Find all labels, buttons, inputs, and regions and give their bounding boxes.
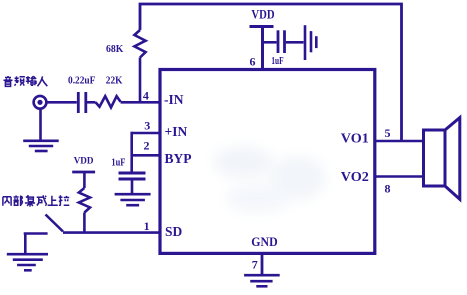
pin 3 wire stub (+IN): [132, 132, 160, 135]
wire: switch to pin 1 (SD): [63, 231, 160, 234]
svg-text:VDD: VDD: [74, 157, 94, 167]
svg-text:VO1: VO1: [341, 131, 369, 146]
svg-text:GND: GND: [251, 234, 277, 249]
wire: jack to C1: [47, 101, 77, 104]
wire: pin 8 to speaker: [375, 175, 423, 178]
capacitor C3 1uF (supply decoupling): [278, 30, 285, 53]
svg-text:-IN: -IN: [164, 92, 184, 107]
svg-text:2: 2: [144, 139, 150, 153]
pin 2 wire stub (BYP): [132, 154, 160, 157]
wire: VDD branch to C3: [263, 41, 277, 44]
ground (pin 7): [244, 275, 280, 286]
svg-text:6: 6: [250, 55, 256, 69]
svg-text:8: 8: [385, 182, 391, 196]
switch S1 (shutdown, open): [46, 215, 64, 232]
capacitor C1 0.22uF: [78, 92, 86, 113]
svg-text:4: 4: [143, 88, 149, 102]
wire: 68K bottom lead to -IN node: [139, 58, 142, 103]
speaker LS1: [424, 118, 460, 200]
svg-text:0.22uF: 0.22uF: [68, 76, 95, 87]
wire: C3 to ground: [286, 41, 304, 44]
ground (decoupling cap, rotated): [305, 25, 316, 60]
resistor (internal pull-up): [79, 188, 90, 213]
ground (input jack): [23, 110, 59, 152]
ground (switch): [7, 254, 48, 270]
svg-text:1uF: 1uF: [111, 157, 125, 168]
wire: VDD to pin 6: [261, 27, 264, 70]
resistor 22K (input): [96, 96, 121, 107]
svg-text:22K: 22K: [106, 76, 123, 87]
wire: pull-up resistor to SD wire: [83, 213, 86, 233]
op-amp U1 (power amplifier IC body): [160, 70, 375, 254]
svg-text:68K: 68K: [106, 44, 124, 55]
wire: top feedback rail from 68K to VO1: [140, 4, 402, 141]
pin 7 wire to ground: [261, 253, 264, 274]
wire: switch left post: [24, 232, 48, 235]
svg-text:3: 3: [144, 119, 150, 133]
svg-text:SD: SD: [165, 224, 183, 239]
ground (bypass cap): [115, 180, 151, 205]
svg-text:7: 7: [252, 258, 258, 272]
capacitor C2 1uF (bypass): [119, 173, 146, 179]
svg-text:VDD: VDD: [251, 7, 274, 22]
svg-text:1uF: 1uF: [271, 56, 283, 67]
svg-text:5: 5: [385, 126, 391, 140]
svg-text:BYP: BYP: [165, 151, 192, 166]
wire: C1 to R 22K: [87, 101, 96, 104]
wire: pin 5 to speaker: [375, 140, 423, 143]
connector J1 (audio input jack): [34, 96, 47, 109]
node label 音频输入 (audio input): [4, 76, 48, 86]
svg-text:VO2: VO2: [341, 169, 369, 184]
svg-text:1: 1: [144, 219, 150, 233]
wire: 22K to pin 4 (-IN), junction with 68K: [121, 101, 161, 104]
label 内部集成上拉 (internal integrated pull-up): [3, 195, 69, 206]
resistor 68K (feedback): [134, 30, 145, 58]
svg-text:+IN: +IN: [165, 124, 188, 139]
wire: +IN/BYP to bypass capacitor: [130, 132, 133, 172]
